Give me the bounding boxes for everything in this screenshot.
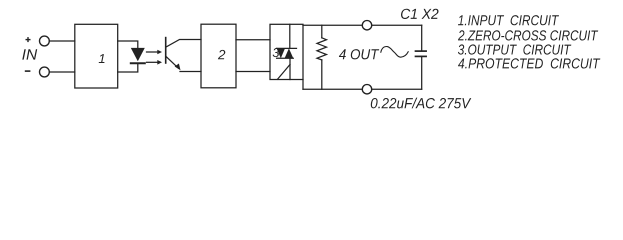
wire box1 to LED anode [118,41,138,48]
phototransistor collector [166,40,201,48]
wire box2 to box3 upper [236,39,270,41]
terminal IN- [40,67,50,77]
wire right drop top [421,25,423,51]
label IN [22,49,37,59]
triac gate lead [278,65,291,80]
wire box3 to bottom rail [302,80,304,90]
AC source sine [381,47,408,58]
phototransistor emitter with arrow [166,57,201,72]
wire right drop bottom [421,57,423,90]
wire IN+ to box1 [49,40,75,42]
terminal OUT bottom [362,85,371,94]
block 2 zero-cross circuit [201,24,236,88]
wire LED cathode to box1 [118,64,138,72]
capacitor C1 [416,51,427,56]
legend line 2 [458,30,598,40]
triac MT2 lead [289,24,291,48]
phototransistor Q1 base bar [165,38,167,63]
wire IN- to box1 [49,71,75,73]
resistor R1 [317,25,327,89]
label 4 OUT [339,49,379,59]
block 3 output circuit [270,24,303,79]
wire bottom rail [303,88,422,90]
wire top rail [303,24,422,26]
label 2 [218,50,225,59]
label 3 [273,48,280,57]
terminal - label [25,70,31,72]
light arrow 2 [147,60,163,65]
legend line 4 [458,58,600,68]
triac MT1 lead [289,58,291,79]
LED D1 [131,48,145,63]
legend line 3 [458,44,571,54]
terminal IN+ [40,36,50,46]
wire box2 to box3 lower [236,71,270,73]
block 1 input circuit [75,24,118,88]
terminal + label [26,37,31,42]
legend line 1 [458,15,559,25]
label 0.22uF/AC 275V [371,98,472,109]
label C1 X2 [401,9,439,19]
light arrow 1 [147,50,163,55]
terminal OUT top [362,21,371,30]
triac T1 [277,48,297,58]
label 1 [99,54,105,63]
